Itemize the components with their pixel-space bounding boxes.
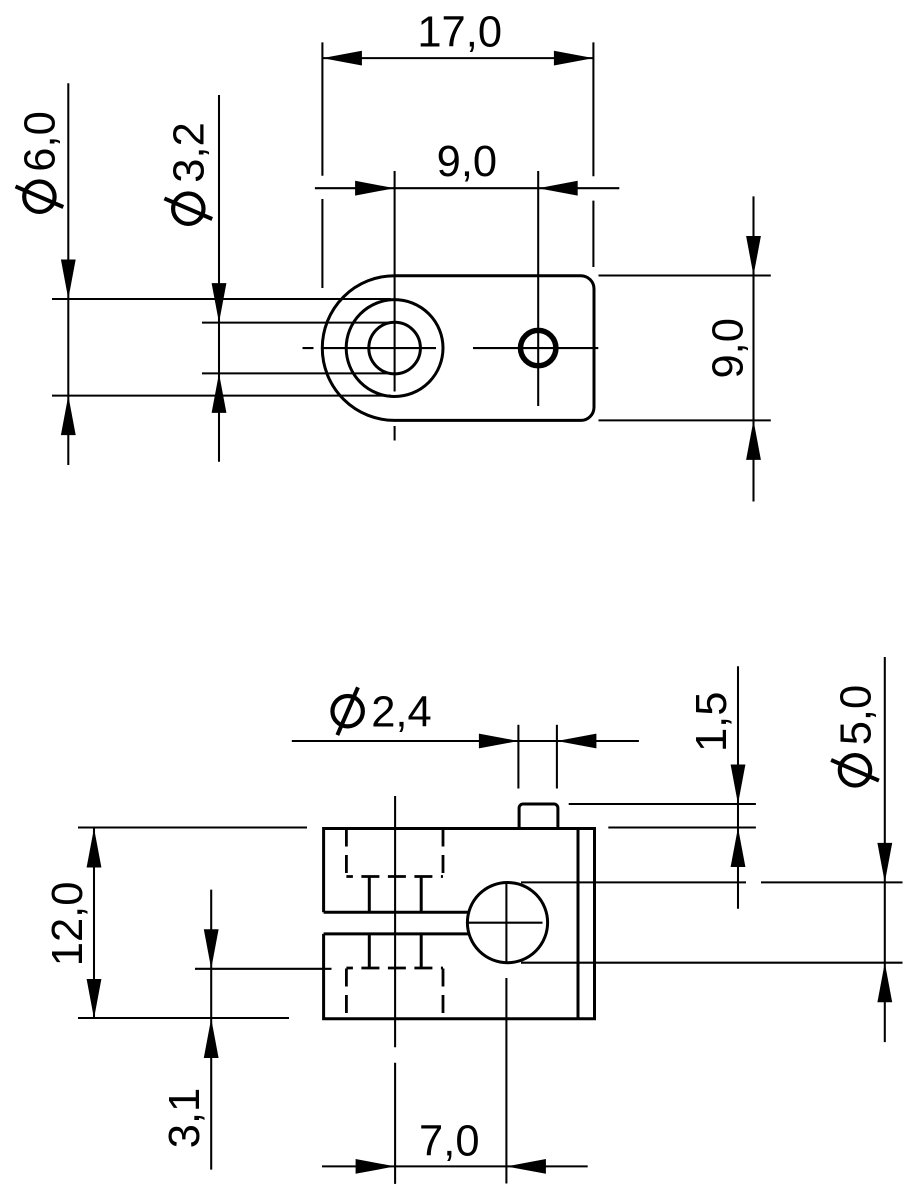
svg-text:6,0: 6,0 bbox=[17, 111, 65, 171]
dimension 3,1: top arrow bbox=[204, 929, 219, 969]
svg-text:7,0: 7,0 bbox=[419, 1118, 479, 1166]
dimension 3,1: dimension line bbox=[210, 890, 212, 1170]
dimension 1,5: text bbox=[688, 692, 736, 752]
dimension 12,0: bottom arrow bbox=[87, 979, 102, 1019]
bottom view: inner right edge line bbox=[577, 829, 580, 1019]
dimension D3,2: bottom arrow bbox=[212, 373, 227, 413]
dimension D2,4: left arrow bbox=[479, 734, 519, 749]
dimension D6,0: bottom extension line bbox=[52, 395, 391, 397]
dimension D6,0: top extension line bbox=[52, 298, 391, 300]
dimension D3,2: bottom extension line bbox=[202, 372, 391, 374]
dimension D2,4: right extension line bbox=[556, 725, 558, 789]
dimension D6,0: bottom arrow bbox=[61, 396, 76, 436]
dimension 17,0: dimension line bbox=[322, 57, 593, 59]
svg-text:3,2: 3,2 bbox=[166, 122, 214, 182]
dimension 12,0: bottom extension line bbox=[78, 1017, 289, 1019]
dimension 1,5: dimension line bbox=[737, 666, 739, 909]
svg-text:5,0: 5,0 bbox=[832, 685, 880, 745]
bottom view: hidden counterbore left wall lower bbox=[345, 969, 348, 1019]
bottom view: hole wall left upper (visible) bbox=[368, 877, 371, 913]
dimension 7,0: dimension line bbox=[322, 1165, 588, 1167]
dimension 12,0: top arrow bbox=[87, 828, 102, 868]
dimension 1,5: top extension line bbox=[569, 803, 756, 805]
dimension D2,4: dimension line bbox=[292, 740, 639, 742]
dimension 1,5: bottom extension line bbox=[608, 826, 756, 828]
dimension 7,0: right arrow bbox=[506, 1159, 546, 1174]
dimension 3,1: text bbox=[161, 1088, 209, 1148]
dimension 9,0 height: bottom extension line bbox=[599, 419, 771, 421]
dimension D2,4: label bbox=[332, 687, 431, 736]
svg-text:3,1: 3,1 bbox=[161, 1088, 209, 1148]
svg-text:9,0: 9,0 bbox=[437, 138, 497, 186]
dimension D3,2: top extension line bbox=[202, 322, 391, 324]
bottom view: hidden counterbore top lower bbox=[346, 967, 443, 970]
dimension 7,0: left arrow bbox=[356, 1159, 396, 1174]
dimension D3,2: label bbox=[164, 122, 213, 224]
bottom view: circle horizontal centerline bbox=[466, 922, 543, 924]
dimension 9,0 height: text bbox=[704, 318, 752, 378]
svg-text:1,5: 1,5 bbox=[688, 692, 736, 752]
bottom view: block outline bbox=[324, 829, 595, 1019]
svg-text:2,4: 2,4 bbox=[371, 689, 431, 737]
top view: vertical centerline of small hole bbox=[537, 171, 539, 406]
bottom view: hole wall left lower (visible) bbox=[368, 934, 371, 968]
dimension 9,0 (hole spacing): dimension line bbox=[315, 187, 619, 189]
dimension D6,0: dimension line bbox=[67, 83, 69, 465]
dimension 9,0 height: top arrow bbox=[746, 236, 761, 276]
dimension D5,0: bottom arrow bbox=[877, 963, 892, 1003]
dimension 9,0: left arrow bbox=[355, 181, 395, 196]
svg-text:17,0: 17,0 bbox=[417, 9, 502, 57]
dimension D6,0: label bbox=[16, 111, 65, 212]
bottom view: pin on top bbox=[519, 804, 558, 829]
top view: vertical centerline of big hole bbox=[394, 171, 396, 441]
dimension D5,0: top extension line bbox=[521, 881, 903, 883]
dimension D5,0: top arrow bbox=[877, 843, 892, 883]
dimension 12,0: top extension line bbox=[78, 826, 307, 828]
dimension D5,0: dimension line bbox=[884, 657, 886, 1042]
dimension 12,0: dimension line bbox=[93, 828, 95, 1019]
dimension 9,0 height: bottom arrow bbox=[746, 420, 761, 460]
bottom view: slot top edge bbox=[324, 911, 470, 914]
dimension 17,0: right arrow bbox=[554, 51, 594, 66]
dimension 17,0: left extension line bbox=[321, 42, 323, 288]
dimension 3,1: bottom arrow bbox=[204, 1019, 219, 1059]
dimension D2,4: left extension line bbox=[517, 725, 519, 789]
dimension 9,0 (body height): dimension line bbox=[752, 196, 754, 501]
dimension 12,0: text bbox=[44, 882, 92, 967]
dimension 1,5: top arrow bbox=[731, 765, 746, 805]
bottom view: hole wall right lower (visible) bbox=[420, 934, 423, 968]
dimension 17,0: left arrow bbox=[322, 51, 362, 66]
dimension D3,2: top arrow bbox=[212, 283, 227, 323]
dimension 1,5: bottom arrow bbox=[731, 828, 746, 868]
bottom view: hidden counterbore right wall upper bbox=[442, 829, 445, 877]
dimension D2,4: right arrow bbox=[557, 734, 597, 749]
top view: hole circle D3.2 bbox=[369, 322, 421, 374]
top view: boss circle D6.0 bbox=[346, 300, 443, 397]
bottom view: hidden counterbore right wall lower bbox=[442, 969, 445, 1019]
bottom view: bore circle D5.0 bbox=[467, 883, 547, 963]
dimension D5,0: label bbox=[831, 685, 880, 786]
bottom view: hidden counterbore left wall upper bbox=[345, 829, 348, 877]
dimension 17,0: right extension line bbox=[592, 42, 594, 267]
top view: part outline (stadium body) bbox=[322, 276, 594, 421]
top view: horizontal centerline bbox=[303, 347, 599, 349]
bottom view: hole wall right upper (visible) bbox=[420, 877, 423, 913]
dimension 3,1: extension line bbox=[195, 968, 332, 970]
svg-text:12,0: 12,0 bbox=[44, 882, 92, 967]
svg-text:9,0: 9,0 bbox=[704, 318, 752, 378]
top view: small hole D2.4 bbox=[521, 330, 556, 365]
dimension D6,0: top arrow bbox=[61, 260, 76, 300]
dimension D5,0: bottom extension line bbox=[521, 962, 903, 964]
dimension D3,2: dimension line bbox=[218, 95, 220, 462]
dimension 9,0 height: top extension line bbox=[599, 274, 771, 276]
bottom view: slot bottom edge bbox=[324, 932, 471, 935]
bottom view: circle vertical centerline bbox=[505, 882, 507, 1184]
dimension 9,0: right arrow bbox=[538, 181, 578, 196]
bottom view: hidden counterbore bottom upper bbox=[346, 875, 443, 878]
bottom view: hole centerline / extension bbox=[394, 796, 396, 1184]
